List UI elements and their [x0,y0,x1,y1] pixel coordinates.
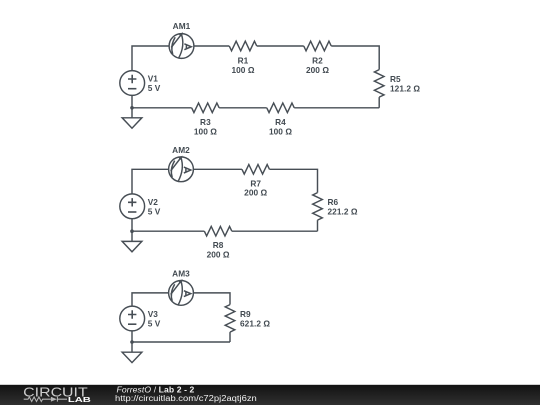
ammeter AM1 [169,34,194,59]
wire top rail circuit 1 right segment [194,45,229,47]
svg-text:AM2: AM2 [172,145,190,155]
wire R5 to bottom right corner [378,97,380,108]
wire R6 to bottom right corner [317,220,319,231]
svg-text:5 V: 5 V [148,319,161,329]
wire between R3 and R4 [219,107,267,109]
ground circuit 2 [122,241,142,251]
resistor R7 [242,165,270,175]
voltage source V2 [120,194,145,219]
wire R9 to bottom right corner [229,332,231,342]
svg-text:5 V: 5 V [148,206,161,216]
svg-text:100 Ω: 100 Ω [194,127,217,137]
svg-text:R5: R5 [390,74,401,84]
node junction circuit 3 [130,340,134,344]
wire between R1 and R2 [257,45,304,47]
svg-text:LAB: LAB [68,395,92,404]
wire bottom rail circuit 2 right segment [232,230,318,232]
svg-text:5 V: 5 V [148,83,161,93]
svg-text:621.2 Ω: 621.2 Ω [240,318,270,328]
ammeter AM2 [169,157,194,182]
wire bottom rail circuit 1 right segment [294,107,379,109]
wire bottom rail circuit 2 left segment [132,230,204,232]
wire bottom rail circuit 1 left segment [132,107,192,109]
resistor R2 [304,41,332,51]
svg-text:AM3: AM3 [172,269,190,279]
logo squiggle resistor [24,397,51,402]
wire R7 to right rail down to R6 [269,169,317,192]
ground circuit 3 [122,352,142,362]
resistor R4 [267,103,295,113]
wire top rail circuit 2 middle segment [194,168,242,170]
resistor R3 [192,103,220,113]
voltage source V3 [120,306,145,331]
logo diode [51,397,57,402]
svg-text:AM1: AM1 [173,21,191,31]
wire V3 bottom to ground [131,331,133,352]
node junction circuit 2 [130,229,134,233]
wire top rail circuit 3 left segment [132,293,169,306]
svg-text:221.2 Ω: 221.2 Ω [328,206,358,216]
resistor R5 [374,70,384,98]
svg-text:100 Ω: 100 Ω [231,65,254,75]
wire R2 to right rail down to R5 [331,46,379,70]
svg-text:121.2 Ω: 121.2 Ω [390,83,420,93]
resistor R1 [229,41,257,51]
svg-text:R9: R9 [240,309,251,319]
resistor R6 [313,193,323,221]
wire top rail circuit 1 left segment [132,46,169,71]
node junction circuit 1 [130,106,134,110]
voltage source V1 [120,71,145,96]
ground circuit 1 [122,118,142,128]
wire bottom rail circuit 3 [132,341,230,343]
svg-text:ForrestO / Lab 2 - 2: ForrestO / Lab 2 - 2 [117,384,195,394]
svg-text:200 Ω: 200 Ω [306,65,329,75]
svg-text:R6: R6 [328,197,339,207]
wire top rail circuit 2 left segment [132,169,169,194]
svg-text:V3: V3 [148,309,159,319]
ammeter AM3 [169,280,194,305]
svg-text:200 Ω: 200 Ω [244,188,267,198]
resistor R9 [225,305,235,333]
wire V2 bottom to ground [131,219,133,242]
svg-text:100 Ω: 100 Ω [269,127,292,137]
resistor R8 [204,226,232,236]
footer bar [0,385,540,405]
svg-text:http://circuitlab.com/c72pj2aq: http://circuitlab.com/c72pj2aqtj6zn [115,394,257,403]
wire top rail circuit 3 right segment [193,293,230,305]
svg-text:V2: V2 [148,197,159,207]
wire V1 bottom to ground [131,95,133,117]
svg-text:200 Ω: 200 Ω [207,250,230,260]
